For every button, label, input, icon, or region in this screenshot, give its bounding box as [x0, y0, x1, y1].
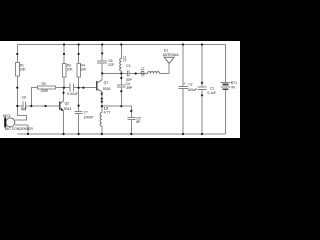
- svg-text:9018: 9018: [103, 87, 111, 91]
- inductor L3 column ends: [101, 106, 103, 134]
- svg-text:C9: C9: [22, 96, 26, 100]
- resistor R3 column: [63, 45, 65, 64]
- antenna E1: [164, 57, 174, 63]
- svg-text:BT1: BT1: [231, 81, 237, 85]
- wire R3 bottom: [63, 77, 65, 88]
- transistor Q2 diagonals: [60, 101, 64, 111]
- node dot emitter row C4: [120, 105, 122, 107]
- inductor L3 coil: [100, 113, 102, 127]
- node dots ground rail: [27, 133, 29, 135]
- resistor R4 column: [78, 45, 80, 64]
- node dots Q1 emitter: [101, 98, 103, 100]
- wire VCC top rail: [17, 44, 225, 46]
- svg-text:9014: 9014: [64, 107, 72, 111]
- resistor R4: [77, 63, 81, 77]
- capacitor C1: [198, 87, 207, 134]
- inductor L1 column ends: [120, 45, 122, 74]
- node dots C4 column: [120, 77, 122, 79]
- svg-text:7T: 7T: [123, 59, 127, 63]
- capacitor C1 column: [201, 45, 203, 88]
- node dots base row: [30, 105, 32, 107]
- capacitor C6 column: [101, 45, 103, 62]
- svg-text:1000P: 1000P: [84, 116, 95, 120]
- svg-text:Q2: Q2: [65, 101, 70, 105]
- node dots collector row: [63, 87, 65, 89]
- node dots C1 column: [201, 82, 203, 84]
- capacitor C4 39P column: [120, 74, 122, 85]
- wire tank node row: [102, 73, 127, 75]
- svg-text:100K: 100K: [41, 89, 50, 93]
- svg-text:0.1uF: 0.1uF: [207, 91, 216, 95]
- svg-text:9V: 9V: [231, 86, 236, 90]
- svg-text:L2: L2: [141, 67, 145, 71]
- capacitor C4 39P: [117, 85, 126, 106]
- capacitor C2: [179, 87, 188, 134]
- svg-text:C6: C6: [108, 59, 112, 63]
- wire R2 to C4: [56, 87, 71, 89]
- node dot C6 bottom: [101, 72, 103, 74]
- node dots top rail: [63, 43, 65, 45]
- svg-text:R2: R2: [42, 82, 46, 86]
- wire mic terminals: [15, 125, 28, 134]
- node dots R1 column: [16, 87, 18, 89]
- svg-text:C7: C7: [84, 111, 88, 115]
- inductor L1 coil: [120, 59, 122, 71]
- svg-text:MIC1: MIC1: [3, 114, 11, 118]
- capacitor C7: [75, 112, 83, 134]
- wire C4a to Q1 base: [73, 87, 97, 89]
- svg-text:8P: 8P: [136, 120, 141, 124]
- wire R1 column top: [16, 45, 18, 63]
- svg-text:1T: 1T: [141, 74, 145, 78]
- wire R1 column bottom: [16, 76, 18, 106]
- wire emitter row: [102, 105, 132, 107]
- transistor Q1 collector and emitter wires: [101, 74, 103, 107]
- transistor Q1 base bar: [96, 81, 98, 91]
- wire R4 bottom through junction: [78, 77, 80, 112]
- svg-text:C1: C1: [210, 87, 214, 91]
- svg-text:1uF: 1uF: [21, 107, 27, 111]
- node dot C7 column: [78, 105, 80, 107]
- inductor L2: [148, 72, 160, 74]
- wire GND bottom rail: [18, 133, 226, 135]
- svg-text:22P: 22P: [108, 63, 115, 67]
- capacitor C9: [17, 102, 59, 111]
- svg-text:0.02uF: 0.02uF: [67, 92, 78, 96]
- wire mic staircase: [15, 106, 27, 120]
- node dots C5 column: [130, 110, 132, 112]
- wire R2 left drop: [31, 88, 37, 106]
- svg-text:C2: C2: [188, 83, 192, 87]
- wire L2 to antenna: [160, 63, 170, 73]
- svg-text:39P: 39P: [126, 78, 133, 82]
- svg-text:C3: C3: [126, 64, 130, 68]
- svg-text:10K: 10K: [67, 68, 74, 72]
- arrow Q1 emitter: [101, 93, 103, 96]
- svg-text:MIC CONDENSER: MIC CONDENSER: [5, 127, 34, 131]
- capacitor C3: [127, 70, 147, 76]
- node dots tank row: [120, 72, 122, 74]
- transistor Q2 base bar: [59, 102, 61, 111]
- svg-text:Q1: Q1: [104, 80, 109, 84]
- arrow Q2 emitter: [61, 108, 63, 111]
- inductor L2 loop symbol: [141, 71, 144, 74]
- node dots below rail: [16, 53, 18, 55]
- svg-text:+: +: [184, 82, 186, 86]
- transistor Q2 collector and emitter wires: [63, 88, 65, 134]
- microphone MIC1 plate: [4, 117, 6, 127]
- resistor R3: [62, 63, 66, 77]
- svg-text:10K: 10K: [80, 68, 87, 72]
- node dot Q2 collector: [62, 92, 64, 94]
- transistor Q1 diagonals: [97, 80, 102, 92]
- svg-text:100uF: 100uF: [187, 88, 197, 92]
- battery BT1: [221, 45, 231, 135]
- capacitor C6: [97, 61, 107, 73]
- resistor R1: [15, 63, 19, 77]
- resistor R2: [38, 86, 56, 89]
- microphone MIC1 body: [6, 118, 15, 127]
- svg-text:ANTENNA: ANTENNA: [163, 53, 180, 57]
- svg-text:10K: 10K: [20, 68, 27, 72]
- capacitor C5: [127, 106, 135, 134]
- capacitor C2 column: [182, 45, 184, 87]
- svg-text:39P: 39P: [126, 86, 133, 90]
- capacitor C4a 0.02uF: [70, 84, 73, 92]
- svg-text:4.7T: 4.7T: [104, 110, 111, 114]
- svg-text:E1: E1: [164, 49, 168, 53]
